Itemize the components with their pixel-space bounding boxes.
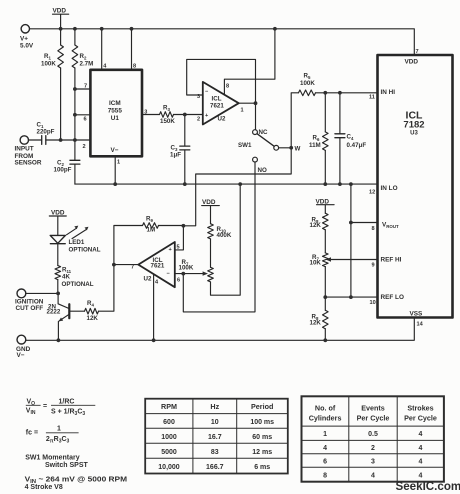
wire C2 bottom to common rail	[74, 164, 76, 184]
wire base resistor to transistor base	[70, 310, 84, 312]
wire U2a pin 8 to VDD rail	[224, 29, 275, 95]
wire U1 pin 4 stub	[101, 29, 103, 70]
svg-text:12: 12	[369, 190, 375, 196]
svg-text:ICM: ICM	[109, 100, 121, 107]
junction common rail at R6	[323, 182, 327, 186]
svg-text:C4: C4	[347, 134, 354, 141]
svg-text:Cylinders: Cylinders	[309, 414, 342, 423]
svg-text:10K: 10K	[310, 260, 322, 267]
svg-text:IN HI: IN HI	[381, 89, 396, 96]
resistor R9 1M feedback	[114, 226, 143, 265]
svg-text:100K: 100K	[41, 61, 56, 68]
svg-text:6: 6	[323, 459, 327, 466]
junction U2a output node	[254, 101, 258, 105]
svg-text:3: 3	[371, 459, 375, 466]
svg-text:10,000: 10,000	[158, 464, 180, 471]
switch SW1 pole contact	[274, 145, 279, 150]
svg-text:R3: R3	[163, 105, 170, 112]
transistor emitter arrowhead	[59, 318, 64, 322]
capacitor C1 220pF	[42, 136, 46, 145]
svg-text:Strokes: Strokes	[407, 404, 433, 413]
svg-text:U2: U2	[144, 276, 152, 283]
svg-text:V−: V−	[111, 147, 119, 154]
svg-text:12K: 12K	[87, 315, 99, 322]
wire pin5 stub	[175, 226, 184, 250]
svg-text:1μF: 1μF	[170, 152, 181, 159]
op-amp U2 second half ICL7621	[138, 242, 175, 287]
svg-text:150K: 150K	[160, 118, 175, 125]
svg-text:8: 8	[323, 473, 327, 480]
wire U2a inverting input pin 3 feedback loop	[187, 59, 256, 103]
wire REF LO pin 10	[325, 296, 377, 298]
junction R2 at pin 6	[73, 113, 77, 117]
junction VDD rail at U1 pin 4	[100, 27, 104, 31]
wire VDD top rail	[30, 29, 414, 55]
svg-text:7621: 7621	[151, 263, 165, 270]
junction IN HI at R6	[323, 91, 327, 95]
junction VDD rail at R2	[73, 27, 77, 31]
svg-text:1000: 1000	[161, 434, 177, 441]
svg-text:2: 2	[83, 144, 86, 150]
resistor R3 150K	[160, 112, 174, 118]
svg-text:5000: 5000	[161, 449, 177, 456]
IC U3 ICL7182	[378, 55, 453, 318]
wire Vrout pin 8	[351, 184, 378, 297]
wiper arrowhead R7 pot	[203, 271, 208, 275]
svg-text:Per Cycle: Per Cycle	[404, 414, 437, 423]
wire analog common rail	[75, 183, 378, 185]
svg-text:12K: 12K	[310, 222, 322, 229]
svg-text:OPTIONAL: OPTIONAL	[62, 281, 94, 288]
junction VDD rail at R1	[59, 27, 63, 31]
wire U2b pin 4 to ground rail	[153, 274, 155, 340]
svg-text:9: 9	[372, 263, 375, 269]
svg-text:No. of: No. of	[315, 404, 336, 413]
svg-text:5.0V: 5.0V	[20, 43, 34, 50]
svg-text:V−: V−	[17, 352, 25, 359]
svg-text:R9: R9	[146, 216, 153, 223]
svg-text:10: 10	[370, 300, 376, 306]
table cylinders events strokes	[302, 396, 444, 481]
svg-text:10: 10	[211, 419, 219, 426]
resistor R5 100K	[299, 90, 316, 96]
wire U2b pin 6 to pot wiper	[175, 273, 203, 275]
svg-text:600: 600	[163, 419, 175, 426]
svg-text:REF HI: REF HI	[381, 257, 402, 264]
op-amp U2 first half ICL7621	[203, 82, 239, 125]
svg-text:OPTIONAL: OPTIONAL	[69, 247, 101, 254]
svg-text:4: 4	[419, 459, 423, 466]
svg-text:Hz: Hz	[210, 402, 219, 411]
svg-text:Switch SPST: Switch SPST	[45, 462, 89, 469]
svg-text:6 ms: 6 ms	[254, 464, 270, 471]
VDD symbol top	[53, 14, 69, 29]
svg-text:2222: 2222	[47, 309, 61, 316]
junction VDD rail at U2a pin 8 branch	[273, 27, 277, 31]
svg-text:VIN: VIN	[26, 408, 36, 417]
wire SW1 NO to U2b pin 6 node	[183, 162, 255, 312]
svg-text:2.7M: 2.7M	[80, 61, 94, 68]
svg-text:W: W	[295, 146, 301, 153]
capacitor C2 100pF	[70, 160, 80, 164]
svg-text:2: 2	[371, 445, 375, 452]
junction Vrout wire	[349, 221, 353, 225]
potentiometer R7 100K	[208, 267, 214, 282]
svg-text:VDD: VDD	[316, 199, 330, 206]
svg-text:11: 11	[369, 95, 375, 101]
table RPM Hz Period	[145, 399, 288, 474]
wire input to C1	[29, 139, 42, 141]
wire R5 to U3 IN HI pin 11	[316, 92, 378, 94]
svg-text:IN LO: IN LO	[381, 185, 398, 192]
junction REF LO at divider	[323, 295, 327, 299]
wire R3 to U2 pin 2	[174, 114, 203, 116]
wire node W to U2b pin 5 node	[183, 148, 291, 226]
svg-text:60 ms: 60 ms	[252, 434, 272, 441]
svg-text:4: 4	[419, 431, 423, 438]
svg-text:NC: NC	[259, 129, 268, 136]
svg-text:VDD: VDD	[405, 59, 419, 66]
wire C1 to U1 pin 2	[46, 139, 91, 141]
svg-text:1M: 1M	[147, 227, 156, 234]
VDD symbol above LED1	[49, 216, 66, 235]
svg-text:3: 3	[144, 110, 147, 116]
junction ignition collector node	[56, 292, 60, 296]
svg-text:7621: 7621	[210, 103, 224, 110]
wire U1 pin 6 stub	[75, 114, 91, 116]
svg-text:8: 8	[226, 84, 229, 90]
junction U2b output node	[112, 263, 116, 267]
VDD symbol above R10	[202, 206, 220, 224]
wire node W to R5	[291, 93, 298, 148]
wire REF HI pin 9	[331, 259, 378, 261]
switch SW1 arm	[257, 134, 274, 147]
svg-text:0.47μF: 0.47μF	[347, 142, 367, 149]
wire R7 pot bottom to IN LO rail	[211, 184, 241, 295]
svg-text:ICL: ICL	[212, 96, 222, 103]
svg-text:VDD: VDD	[51, 210, 65, 217]
potentiometer R7 10K	[323, 253, 329, 267]
resistor R8 12K upper	[323, 213, 329, 230]
svg-text:REF LO: REF LO	[381, 294, 404, 301]
svg-text:Period: Period	[251, 402, 273, 411]
junction input wire at R2 pin 2	[73, 138, 77, 142]
svg-text:7182: 7182	[403, 120, 424, 131]
wire U1 pin 3 to R3	[142, 114, 160, 116]
wire ignition to transistor collector node	[26, 292, 58, 294]
wire U2b output pin 7	[114, 264, 138, 266]
svg-text:U2: U2	[218, 116, 226, 123]
wire U2a output pin 1	[239, 102, 256, 104]
svg-text:4: 4	[419, 445, 423, 452]
svg-text:11M: 11M	[309, 142, 321, 149]
svg-text:12 ms: 12 ms	[252, 449, 272, 456]
junction input wire at R1	[59, 138, 63, 142]
svg-text:INPUT: INPUT	[15, 146, 34, 153]
svg-text:400K: 400K	[217, 232, 232, 239]
svg-text:R4: R4	[87, 300, 94, 307]
junction common rail at R7 pot return	[238, 182, 242, 186]
svg-text:6: 6	[177, 278, 180, 284]
svg-text:83: 83	[211, 449, 219, 456]
svg-text:166.7: 166.7	[206, 464, 224, 471]
junction IN HI at C4	[338, 91, 342, 95]
svg-text:100K: 100K	[300, 80, 315, 87]
svg-text:8: 8	[133, 64, 136, 70]
svg-text:7: 7	[131, 265, 134, 271]
svg-text:1: 1	[117, 160, 120, 166]
svg-text:U1: U1	[111, 115, 120, 122]
svg-text:SeekIC.com: SeekIC.com	[396, 480, 460, 493]
VDD symbol above right divider	[317, 205, 335, 214]
junction common rail at Vrout branch	[349, 182, 353, 186]
terminal INPUT FROM SENSOR	[20, 136, 28, 144]
svg-text:VSS: VSS	[410, 311, 424, 318]
terminal GND V-	[17, 335, 26, 344]
svg-text:14: 14	[417, 322, 424, 328]
svg-text:V+: V+	[20, 36, 28, 43]
svg-text:5: 5	[177, 245, 180, 251]
IC U1 ICM 7555	[90, 70, 142, 157]
junction common rail at C3	[183, 182, 187, 186]
svg-text:−: −	[205, 89, 209, 95]
svg-text:7: 7	[84, 84, 87, 90]
resistor R8 12K lower	[323, 310, 329, 328]
transistor Q1 2N2222	[58, 293, 69, 308]
svg-text:8: 8	[372, 226, 375, 232]
svg-text:0.5: 0.5	[368, 431, 378, 438]
svg-text:12K: 12K	[310, 320, 322, 327]
svg-text:6: 6	[84, 117, 87, 123]
svg-text:VDD: VDD	[53, 8, 67, 15]
svg-text:RPM: RPM	[161, 402, 177, 411]
switch SW1 NO contact	[253, 157, 258, 162]
resistor R10 400K	[208, 224, 214, 239]
svg-text:Per Cycle: Per Cycle	[357, 414, 390, 423]
junction ground rail at emitter	[57, 338, 61, 342]
svg-text:2: 2	[197, 117, 200, 123]
svg-text:220pF: 220pF	[37, 129, 55, 136]
resistor R6 11M	[324, 93, 326, 132]
svg-text:3: 3	[197, 94, 200, 100]
svg-text:100 ms: 100 ms	[250, 419, 274, 426]
resistor R2 2.7M	[74, 29, 76, 45]
svg-text:U3: U3	[410, 131, 418, 137]
svg-text:16.7: 16.7	[208, 434, 222, 441]
resistor R11 4K optional	[55, 266, 61, 280]
junction ground rail at U2b pin 4	[152, 338, 156, 342]
wire R11 to collector node	[57, 280, 59, 294]
LED1 emission arrows	[67, 228, 87, 238]
svg-text:−: −	[167, 271, 171, 277]
LED1 diode	[50, 235, 65, 243]
resistor R1 100K	[60, 29, 62, 45]
svg-text:SW1 Momentary: SW1 Momentary	[25, 455, 80, 462]
svg-text:R2: R2	[80, 53, 87, 60]
svg-text:NO: NO	[258, 167, 267, 174]
svg-text:1: 1	[57, 426, 61, 433]
wire output to SW1 NC contact	[255, 103, 257, 130]
junction VDD rail at U1 pin 8	[130, 27, 134, 31]
junction pin 6 node	[181, 272, 185, 276]
wire U1 pin 8 stub	[131, 29, 133, 70]
capacitor C3 1uF	[184, 115, 186, 147]
svg-text:4: 4	[419, 473, 423, 480]
svg-text:1: 1	[323, 431, 327, 438]
svg-text:R5: R5	[304, 73, 311, 80]
svg-text:4 Stroke V8: 4 Stroke V8	[25, 484, 63, 491]
svg-text:7: 7	[416, 49, 419, 55]
svg-text:VROUT: VROUT	[382, 222, 399, 230]
svg-text:1: 1	[241, 108, 244, 114]
svg-text:2πR3C3: 2πR3C3	[46, 436, 70, 445]
svg-text:VDD: VDD	[202, 199, 216, 206]
svg-text:+: +	[205, 113, 209, 119]
svg-text:4K: 4K	[62, 274, 70, 281]
junction common rail at C4	[338, 182, 342, 186]
svg-text:+: +	[169, 247, 173, 253]
wire ground rail to VSS pin 14	[26, 318, 415, 341]
wire U1 pin 1 stub	[114, 156, 116, 184]
svg-text:7555: 7555	[108, 107, 123, 114]
resistor R4 12K base	[85, 308, 99, 314]
terminal IGNITION CUT OFF	[17, 289, 26, 298]
junction REF LO at Vrout branch	[349, 295, 353, 299]
junction node W	[289, 146, 293, 150]
wire LED1 to R11	[57, 244, 59, 266]
svg-text:1/RC: 1/RC	[59, 398, 75, 405]
junction R3 C3 node	[183, 113, 187, 117]
junction common rail at U1 pin 1	[113, 182, 117, 186]
terminal V+	[21, 25, 29, 33]
wiper arrowhead right pot R7 10K	[326, 257, 331, 261]
junction ground rail at R8 lower	[323, 338, 327, 342]
svg-text:SENSOR: SENSOR	[15, 160, 42, 167]
svg-text:100K: 100K	[179, 265, 194, 272]
svg-text:fc =: fc =	[26, 430, 38, 437]
svg-text:SW1: SW1	[238, 142, 252, 149]
svg-text:=: =	[43, 403, 47, 410]
svg-text:LED1: LED1	[69, 239, 85, 246]
wire SW1 pole to node W	[279, 147, 292, 149]
wire output node down to base resistor	[99, 265, 114, 312]
svg-text:S + 1/R3C3: S + 1/R3C3	[51, 408, 85, 417]
svg-text:Events: Events	[361, 404, 385, 413]
svg-text:100pF: 100pF	[54, 167, 72, 174]
svg-text:CUT OFF: CUT OFF	[16, 305, 44, 312]
svg-text:R1: R1	[44, 53, 51, 60]
svg-text:4: 4	[371, 473, 375, 480]
capacitor C4 0.47uF	[339, 93, 341, 134]
junction R2 at pin 7	[73, 87, 77, 91]
wire U1 pin 7 stub	[75, 88, 91, 90]
svg-text:R6: R6	[313, 135, 320, 142]
switch SW1 NC contact	[253, 130, 258, 135]
junction R9 right pin 5 node	[182, 224, 186, 228]
svg-text:4: 4	[155, 280, 159, 286]
svg-text:4: 4	[323, 445, 327, 452]
